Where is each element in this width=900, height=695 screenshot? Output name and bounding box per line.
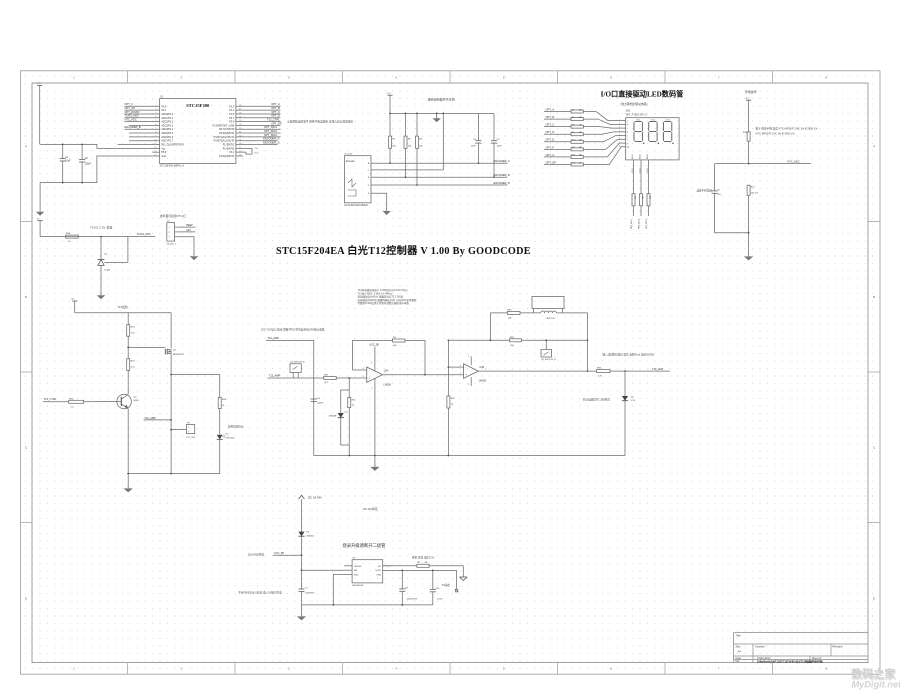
wire dcdc bottom rail (302, 604, 433, 606)
svg-text:OPT_B: OPT_B (546, 115, 555, 119)
schematic title text (276, 244, 531, 257)
note rotary encoder support (428, 97, 455, 102)
note TL431 2.5V reference (90, 224, 112, 229)
note MCU row6 low level (287, 120, 353, 124)
svg-text:T12_AMP: T12_AMP (268, 336, 280, 340)
svg-text:1N4004: 1N4004 (306, 536, 314, 538)
feedback R29 loop (448, 337, 588, 347)
svg-text:DIG3: DIG3 (647, 168, 649, 172)
svg-text:T12_AMP: T12_AMP (269, 374, 281, 378)
7-segment digit 3 (663, 119, 673, 144)
title block (734, 633, 868, 664)
resistor R10 + wire OPT_E (544, 136, 621, 144)
svg-text:Drawn By:: Drawn By: (812, 660, 823, 663)
svg-text:OPT_D: OPT_D (546, 130, 555, 134)
resistor R23 (127, 313, 136, 348)
svg-text:OPT_DIG1: OPT_DIG1 (631, 218, 633, 229)
wire+net OPT_DIG2 (MCU right pin) (236, 129, 281, 133)
svg-text:OPT_7-SEG_DP_3: OPT_7-SEG_DP_3 (626, 114, 647, 117)
svg-text:ENCODER_B: ENCODER_B (494, 173, 510, 177)
wire TL431 row (40, 236, 155, 238)
power 12V heater (71, 299, 78, 313)
svg-text:烧录升级请断开二极管: 烧录升级请断开二极管 (343, 542, 387, 549)
ground encoder E (383, 209, 391, 216)
svg-text:U4_SWITCH_B: U4_SWITCH_B (541, 359, 556, 361)
svg-text:ADC0/P1.0: ADC0/P1.0 (161, 113, 173, 116)
analog switch U4A (290, 361, 305, 378)
svg-text:GND: GND (354, 575, 359, 577)
svg-text:数码之家: 数码之家 (851, 666, 896, 680)
feedback R4 loop opamp1 (353, 337, 426, 375)
svg-text:P3.7(A7)/INT3: P3.7(A7)/INT3 (219, 128, 235, 131)
rotary encoder S1 EC11 (344, 153, 377, 208)
note buzzer header (160, 214, 186, 218)
svg-text:File:: File: (736, 660, 741, 663)
wire+net ENCODER_D (377, 181, 510, 185)
svg-text:给LM358供电: 给LM358供电 (248, 553, 264, 557)
note DC-DC (363, 507, 378, 511)
svg-text:LED-Red: LED-Red (226, 437, 235, 439)
svg-text:100nF: 100nF (317, 403, 324, 405)
svg-text:2: 2 (188, 431, 189, 433)
svg-text:Title: Title (736, 634, 742, 638)
svg-text:KIA78D05F: KIA78D05F (352, 584, 364, 587)
resistor R2 pull-up (404, 113, 412, 179)
digit drive R14 + net OPT_DIG1 (631, 154, 637, 229)
svg-text:OPT_A: OPT_A (546, 107, 555, 111)
wire NTC bottom join (715, 232, 750, 234)
svg-text:P3.6: P3.6 (229, 122, 234, 124)
svg-text:DIG2: DIG2 (639, 168, 641, 172)
wire power input down (301, 503, 303, 531)
note NTC spec line2 (756, 132, 796, 136)
svg-text:P3.0(A0)/INT4: P3.0(A0)/INT4 (219, 155, 235, 158)
svg-text:OPT_UP: OPT_UP (125, 106, 136, 110)
wire VOUT drop to port (455, 570, 458, 592)
svg-text:GND: GND (376, 575, 381, 577)
resistor R19 (66, 233, 79, 243)
resistor R6 + wire OPT_A (544, 107, 621, 120)
zener D4 (583, 371, 636, 455)
svg-text:ADC7/P1.7: ADC7/P1.7 (161, 140, 173, 143)
svg-text:P3.5(T1)/CLKOUT1: P3.5(T1)/CLKOUT1 (214, 137, 235, 139)
wire+net OPT_DOWN (pin3) (125, 110, 160, 114)
svg-text:ADC3/P1.3: ADC3/P1.3 (161, 124, 173, 127)
svg-text:I/O口直接驱动LED数码管: I/O口直接驱动LED数码管 (601, 90, 684, 99)
svg-text:1: 1 (188, 427, 189, 429)
wire+net OPT_3 (pin1) (125, 102, 160, 106)
op-amp U3B LM358 (448, 356, 486, 386)
resistor R32 (478, 368, 625, 378)
capacitor C1 (60, 144, 71, 184)
LED D5 heat indicator (217, 425, 244, 474)
svg-text:加热状态指示: 加热状态指示 (228, 425, 244, 429)
svg-text:NTC-MF52AT 10K 1% B 3950 1%: NTC-MF52AT 10K 1% B 3950 1% (756, 132, 796, 136)
svg-text:ENCODER_D: ENCODER_D (263, 140, 279, 144)
svg-text:Size: Size (736, 644, 742, 648)
ground dcdc (297, 605, 306, 621)
svg-text:RxD: RxD (255, 153, 259, 155)
note direct 5V input (238, 590, 282, 594)
svg-text:ADC4/P1.4: ADC4/P1.4 (161, 128, 173, 131)
svg-text:P2.0/RSTOUT_LOW: P2.0/RSTOUT_LOW (213, 125, 235, 127)
resistor R21 (348, 378, 357, 456)
note T12 heater (117, 305, 128, 309)
svg-text:OPT_DP: OPT_DP (271, 121, 282, 125)
wire TxD RxD loop (236, 148, 259, 154)
svg-text:100uF/25V: 100uF/25V (407, 599, 418, 601)
jumper JP1 T12_OFF (170, 422, 196, 439)
digit drive R15 + net OPT_DIG2 (639, 154, 645, 229)
note opamp gain (603, 352, 655, 356)
svg-text:TL431 2.5V 基准: TL431 2.5V 基准 (90, 224, 112, 229)
wire encoder common to bus (442, 113, 444, 170)
wire+net OPT_UP (pin2) (125, 106, 160, 110)
svg-text:DS1: DS1 (626, 110, 631, 113)
svg-text:0.1uF: 0.1uF (437, 599, 443, 601)
svg-text:不用7805时可以在此 输入5V独立供电: 不用7805时可以在此 输入5V独立供电 (238, 590, 282, 594)
wire stub pin15 (236, 155, 243, 157)
heading LED display (601, 90, 684, 99)
7-segment digit 1 (634, 119, 644, 144)
IC U1 STC15F200 body (154, 95, 241, 167)
svg-text:R36 10k: R36 10k (547, 318, 556, 320)
wire+net TL431_ADC (pin4) (125, 114, 160, 118)
resistor R18 (743, 132, 750, 164)
LED display DS1 box (619, 110, 679, 160)
note T18 interface (261, 328, 325, 332)
digit drive R16 + net OPT_DIG3 (646, 154, 652, 229)
resistor R22 (447, 367, 456, 455)
svg-text:蜂鸣器与按键 P5.4口: 蜂鸣器与按键 P5.4口 (160, 214, 186, 218)
wire R27 to opamp (336, 377, 367, 379)
capacitor C7 (299, 570, 315, 605)
svg-text:(较为理想的驱动电路): (较为理想的驱动电路) (620, 102, 647, 106)
wire header pin3 to ground (177, 237, 194, 255)
svg-text:NC: NC (378, 566, 382, 568)
svg-text:Header 3: Header 3 (167, 242, 177, 245)
wire+net OPT_DP (MCU right pin) (236, 121, 282, 125)
wire heater top rail (75, 312, 171, 314)
power VCC handle (745, 98, 751, 132)
resistor R5 (417, 562, 429, 567)
svg-text:A4: A4 (738, 650, 742, 654)
svg-text:ENCODER_A: ENCODER_A (494, 159, 510, 163)
svg-text:B: B (25, 295, 27, 299)
wire+net OPT_DIG1 (MCU right pin) (236, 125, 281, 129)
svg-text:OPT_DP: OPT_DP (546, 160, 557, 164)
wire Vcc pin12 to decoupling rail (40, 144, 160, 148)
svg-text:A: A (25, 144, 27, 148)
svg-text:2: 2 (363, 368, 364, 370)
svg-text:OPT_C: OPT_C (546, 123, 555, 127)
svg-text:P1.2: P1.2 (229, 106, 234, 108)
wire Gnd pin14 to ground rail (40, 156, 160, 183)
svg-text:10nF: 10nF (497, 146, 503, 148)
svg-text:IRC_CLKO/RST/P5.4: IRC_CLKO/RST/P5.4 (161, 145, 184, 147)
svg-text:P1.1: P1.1 (229, 110, 234, 112)
wire stub pin10 (129, 140, 160, 142)
svg-text:7: 7 (485, 368, 486, 370)
resistor R11 + wire OPT_F (544, 139, 621, 151)
wire+net T12_AMP upper (266, 336, 314, 456)
svg-text:d: d (627, 132, 628, 134)
svg-text:OPT_A: OPT_A (271, 102, 280, 106)
svg-text:DC-DC降压: DC-DC降压 (363, 507, 378, 511)
ground NTC (744, 254, 753, 261)
capacitor C2 (79, 144, 92, 184)
svg-text:U3B: U3B (479, 366, 484, 369)
svg-text:5.1V: 5.1V (631, 400, 636, 402)
resistor R7 + wire OPT_B (544, 115, 621, 124)
svg-text:STC15F200: STC15F200 (186, 103, 210, 108)
svg-text:10nF: 10nF (471, 146, 477, 148)
wire+net OPT_B (MCU right pin) (236, 106, 281, 110)
wire opamp1 out to opamp2 (383, 374, 464, 376)
svg-text:NTC_ADC: NTC_ADC (125, 117, 137, 121)
diode D3 1N4148 (329, 390, 350, 445)
ground header (190, 254, 198, 261)
svg-text:OPT_F: OPT_F (546, 145, 555, 149)
svg-text:VCC: VCC (387, 93, 392, 95)
svg-text:OPT_DIG3: OPT_DIG3 (646, 218, 648, 229)
svg-text:LM358: LM358 (384, 384, 392, 387)
shunt reference D1 TL431 (98, 236, 128, 272)
wire+net VCC_5P (273, 551, 302, 556)
7-segment digit 2 (649, 119, 659, 144)
wire+net T12_CTRL (MCU right pin) (236, 117, 281, 121)
power input DC19-24V (299, 495, 322, 503)
resistor R24 (127, 347, 136, 394)
ground on encoder bus (433, 113, 441, 123)
capacitor C3 (311, 398, 324, 404)
wire stub pin13 (152, 151, 159, 153)
resistor R12 + wire OPT_G (544, 143, 621, 158)
svg-text:6: 6 (619, 138, 620, 140)
svg-text:Encoder: Encoder (346, 160, 355, 163)
svg-text:DIG1: DIG1 (632, 154, 634, 158)
svg-text:P3.1: P3.1 (229, 152, 234, 154)
svg-text:8: 8 (468, 356, 469, 358)
ground below C1C2 (36, 183, 44, 216)
svg-text:VCC: VCC (36, 83, 41, 85)
wire pin11 RST (118, 144, 160, 146)
svg-text:e: e (627, 135, 628, 137)
diode D6 (298, 532, 314, 556)
svg-text:5V输出: 5V输出 (442, 583, 451, 587)
svg-text:滤波平稳电容: 滤波平稳电容 (696, 189, 712, 193)
wire encoder C to gnd net (377, 169, 443, 171)
svg-text:5: 5 (619, 134, 620, 136)
svg-text:ADC2/P1.2: ADC2/P1.2 (161, 121, 173, 124)
svg-text:T12加热: T12加热 (117, 305, 128, 309)
svg-text:旋转编码器开关支持: 旋转编码器开关支持 (428, 97, 455, 102)
svg-text:T12_OFF: T12_OFF (186, 437, 196, 439)
wire+net KEY (177, 230, 195, 232)
wire drain branch (170, 374, 219, 474)
svg-text:VOUT: VOUT (375, 570, 382, 572)
resistor R26 (218, 375, 227, 435)
wire+net ENCODER_A (377, 159, 510, 163)
wire stub pin6 (129, 124, 160, 126)
ground analog rail (370, 456, 379, 471)
svg-text:上电即输出低电平 烙铁不会误加热 可放心安全调试使用: 上电即输出低电平 烙铁不会误加热 可放心安全调试使用 (287, 120, 353, 124)
feedback R30 + R36 loop (490, 297, 588, 373)
wire+net NTC_ADC (748, 160, 811, 165)
svg-text:encoder: encoder (344, 153, 352, 156)
svg-text:b: b (627, 124, 628, 126)
wire+net ENCODER_A (MCU right pin) (236, 137, 280, 141)
svg-text:Revision: Revision (833, 644, 844, 648)
power 5V for TL431 (37, 218, 43, 236)
svg-text:MOSFET-P: MOSFET-P (173, 354, 185, 356)
svg-text:整机 供电 电压5.0V: 整机 供电 电压5.0V (412, 555, 435, 559)
svg-text:OPT_DIG2: OPT_DIG2 (264, 129, 277, 133)
wire VOUT (383, 570, 457, 572)
analog switch U4B (541, 339, 556, 361)
wire+net ENCODER_B (pin7) (125, 125, 160, 129)
svg-text:OPT_C: OPT_C (271, 110, 280, 114)
svg-text:VCC_5P: VCC_5P (274, 551, 284, 555)
wire gate (127, 347, 165, 349)
svg-text:P3.1: P3.1 (161, 110, 166, 112)
svg-text:4: 4 (619, 131, 620, 133)
transistor Q1 MOSFET-P 9435 (165, 313, 184, 375)
connector J2 Header3 (167, 221, 178, 246)
svg-text:OPT_DIG2: OPT_DIG2 (639, 218, 641, 229)
svg-text:P3.7: P3.7 (229, 118, 234, 120)
svg-text:OPT_E: OPT_E (546, 138, 555, 142)
power VCC top-left (36, 83, 42, 144)
wire+net OPT_C (MCU right pin) (236, 110, 281, 114)
watermark MyDigit.net (851, 666, 900, 689)
ground arrow output (460, 577, 468, 581)
svg-text:dp: dp (627, 147, 629, 149)
svg-text:VCC_5P: VCC_5P (369, 343, 379, 346)
svg-text:U4_SWITCH_A: U4_SWITCH_A (290, 361, 305, 364)
wire+net BEEP (177, 225, 195, 227)
svg-text:输入2欧阻抗,输出 电压 反算Rout 选用LM358: 输入2欧阻抗,输出 电压 反算Rout 选用LM358 (603, 352, 655, 356)
svg-text:BEEP: BEEP (187, 225, 194, 227)
svg-text:OPT_DIG1: OPT_DIG1 (264, 125, 277, 129)
svg-text:A: A (873, 144, 875, 148)
svg-text:OPT_DOWN: OPT_DOWN (125, 110, 140, 114)
wire+net ENCODER_B (encoder) (377, 173, 510, 177)
ground TL431 (97, 265, 105, 299)
wire+net OPT_D (MCU right pin) (236, 114, 281, 118)
svg-text:ENCODER_B: ENCODER_B (125, 125, 141, 129)
resistor R27 (324, 375, 337, 385)
wire+net T12_AMP tap (144, 416, 172, 421)
wire+net OPT_DIG3 (MCU right pin) (236, 133, 281, 137)
svg-text:6: 6 (460, 365, 461, 367)
svg-text:R15: R15 (643, 196, 645, 199)
svg-text:R16: R16 (650, 196, 652, 199)
note output voltage (412, 555, 435, 559)
svg-text:DIG1: DIG1 (632, 168, 634, 172)
svg-text:STC15F204EA 白光T12控制器 V 1.00 By: STC15F204EA 白光T12控制器 V 1.00 By GOODCODE (276, 244, 531, 257)
svg-text:VCC: VCC (745, 98, 750, 100)
svg-text:T12_CTRL: T12_CTRL (267, 117, 280, 121)
svg-text:TxD: TxD (255, 148, 259, 150)
svg-text:TL431_ADC: TL431_ADC (137, 232, 151, 236)
svg-text:10uF: 10uF (65, 161, 71, 163)
resistor R9 + wire OPT_D (544, 130, 621, 136)
wire emitter down (127, 409, 129, 474)
capacitor C5 (491, 113, 502, 178)
svg-text:1N4148: 1N4148 (329, 416, 337, 418)
svg-text:ENCODER_D: ENCODER_D (494, 181, 510, 185)
wire after R5 (429, 566, 463, 577)
svg-text:-: - (368, 369, 369, 373)
note block thermocouple (358, 288, 417, 305)
svg-text:可量程0-300度界定并留有调整范围的采样电路: 可量程0-300度界定并留有调整范围的采样电路 (358, 301, 410, 305)
svg-text:8: 8 (371, 363, 372, 365)
subheading LED display (620, 102, 647, 106)
resistor R1 pull-up (389, 113, 397, 165)
svg-text:OPT_D: OPT_D (271, 114, 280, 118)
svg-text:P3.0: P3.0 (161, 106, 166, 108)
svg-text:2: 2 (619, 123, 620, 125)
svg-text:10k 1%: 10k 1% (751, 192, 758, 194)
svg-text:ADC6/P1.6: ADC6/P1.6 (161, 136, 173, 139)
power VCC encoder (387, 93, 393, 114)
svg-text:DC 19-24V: DC 19-24V (308, 495, 322, 499)
svg-text:P1.3(INT1): P1.3(INT1) (223, 145, 235, 147)
svg-text:DIG3: DIG3 (647, 154, 649, 158)
svg-text:10uF/50V: 10uF/50V (305, 593, 315, 595)
wire+net T12_AMP lower (268, 374, 324, 378)
resistor R13 + wire OPT_DP (544, 147, 621, 166)
svg-text:Number: Number (756, 644, 765, 648)
svg-text:ADC5/P1.5: ADC5/P1.5 (161, 132, 173, 135)
svg-text:KEY: KEY (187, 230, 192, 232)
resistor R20 (69, 398, 117, 408)
svg-text:MyDigit.net: MyDigit.net (852, 679, 900, 689)
svg-text:手柄信号: 手柄信号 (745, 89, 757, 94)
wire encoder top bus (390, 112, 494, 114)
note handle signal (745, 89, 757, 94)
svg-text:8050: 8050 (134, 400, 140, 402)
svg-text:OPT_3: OPT_3 (125, 102, 134, 106)
op-amp U3A LM358 (353, 343, 392, 455)
resistor R17 (747, 185, 758, 255)
ground heater (124, 474, 133, 493)
note LM358 supply (248, 553, 264, 557)
capacitor C8 (399, 570, 418, 605)
svg-text:对于T18 接口 使用 需断开R27并在此串接OPA放大电路: 对于T18 接口 使用 需断开R27并在此串接OPA放大电路 (261, 328, 325, 332)
svg-text:P3.4(T0)/CLKOUT0: P3.4(T0)/CLKOUT0 (214, 141, 235, 143)
svg-text:T12_CTRL: T12_CTRL (44, 397, 57, 401)
svg-text:P1.4(INT0): P1.4(INT0) (223, 148, 235, 150)
svg-text:T12_ADC: T12_ADC (652, 367, 664, 371)
wire stub pin9 (129, 136, 160, 138)
svg-text:1: 1 (385, 373, 386, 375)
svg-text:7: 7 (619, 142, 620, 144)
svg-text:4: 4 (371, 388, 372, 390)
svg-text:P1.0: P1.0 (229, 114, 234, 116)
wire+net T12_ADC (624, 367, 670, 372)
svg-text:DIG2: DIG2 (639, 154, 641, 158)
svg-text:-: - (465, 365, 466, 369)
svg-text:g: g (627, 143, 628, 145)
svg-text:置于 烙铁手柄 温度 NTC-MF52AT 10K 1% B: 置于 烙铁手柄 温度 NTC-MF52AT 10K 1% B 3950 1% (756, 126, 819, 130)
wire encoder E down (377, 193, 387, 209)
capacitor C4 (471, 113, 482, 164)
svg-text:LM358: LM358 (479, 380, 487, 383)
svg-text:STC15F204-28PIN_A: STC15F204-28PIN_A (160, 164, 185, 167)
svg-text:TL431_ADC: TL431_ADC (125, 114, 139, 118)
